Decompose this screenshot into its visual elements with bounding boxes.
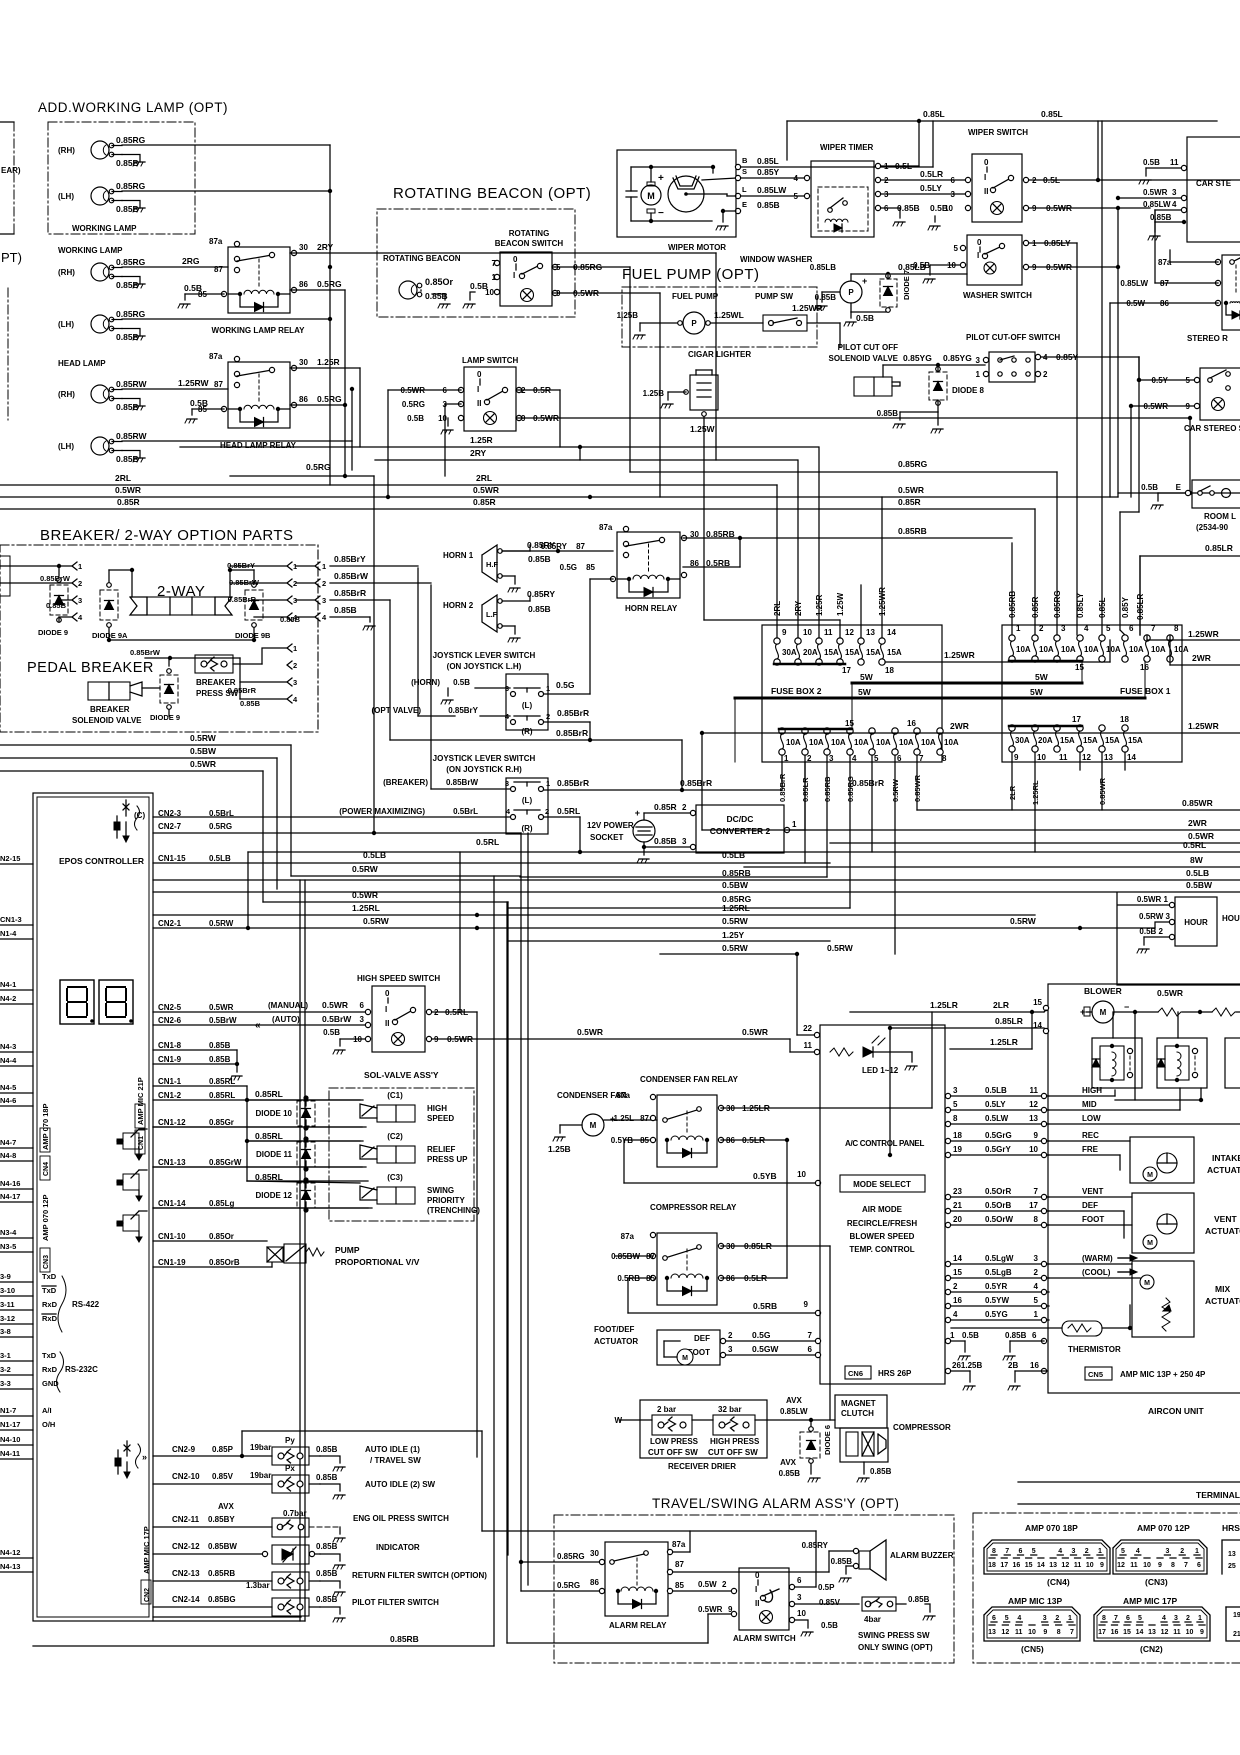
svg-text:N4-10: N4-10 bbox=[0, 1435, 20, 1444]
svg-text:2: 2 bbox=[545, 807, 549, 816]
svg-text:6: 6 bbox=[1129, 624, 1134, 633]
svg-text:0.5RW: 0.5RW bbox=[352, 864, 379, 874]
svg-text:0.5RW: 0.5RW bbox=[891, 778, 900, 802]
svg-text:3: 3 bbox=[951, 190, 956, 199]
svg-text:3-12: 3-12 bbox=[0, 1314, 15, 1323]
svg-text:3: 3 bbox=[1174, 1615, 1178, 1622]
svg-text:REC: REC bbox=[1082, 1131, 1099, 1140]
svg-text:15: 15 bbox=[845, 719, 854, 728]
svg-text:0.85BY: 0.85BY bbox=[208, 1515, 235, 1524]
svg-text:3: 3 bbox=[1172, 188, 1177, 197]
svg-text:2: 2 bbox=[1043, 370, 1048, 379]
svg-text:0.85RG: 0.85RG bbox=[1053, 590, 1062, 618]
svg-text:RELIEF: RELIEF bbox=[427, 1145, 456, 1154]
svg-text:VENT: VENT bbox=[1082, 1187, 1103, 1196]
svg-text:10: 10 bbox=[1029, 1145, 1038, 1154]
svg-text:13: 13 bbox=[1228, 1551, 1236, 1558]
svg-text:0.5WR: 0.5WR bbox=[115, 485, 141, 495]
svg-text:Px: Px bbox=[285, 1464, 295, 1473]
svg-text:TEMP. CONTROL: TEMP. CONTROL bbox=[849, 1245, 914, 1254]
svg-text:6: 6 bbox=[897, 754, 902, 763]
svg-text:87: 87 bbox=[214, 380, 223, 389]
svg-text:3: 3 bbox=[797, 1593, 802, 1602]
svg-text:TxD: TxD bbox=[42, 1272, 57, 1281]
svg-text:2: 2 bbox=[953, 1282, 958, 1291]
svg-text:FUSE BOX 2: FUSE BOX 2 bbox=[771, 686, 822, 696]
svg-text:(CN4): (CN4) bbox=[1047, 1577, 1070, 1587]
svg-text:19bar: 19bar bbox=[250, 1471, 271, 1480]
svg-text:7: 7 bbox=[808, 1331, 813, 1340]
svg-text:INDICATOR: INDICATOR bbox=[376, 1543, 420, 1552]
svg-text:SWING PRESS SW: SWING PRESS SW bbox=[858, 1631, 930, 1640]
svg-text:16: 16 bbox=[1111, 1629, 1119, 1636]
svg-text:17: 17 bbox=[1029, 1201, 1038, 1210]
svg-text:7: 7 bbox=[1114, 1615, 1118, 1622]
svg-text:30: 30 bbox=[299, 358, 308, 367]
svg-text:L: L bbox=[742, 185, 747, 194]
svg-text:(LH): (LH) bbox=[58, 442, 74, 451]
svg-text:CN6: CN6 bbox=[848, 1369, 863, 1378]
svg-text:N4-2: N4-2 bbox=[0, 994, 16, 1003]
svg-text:DEF: DEF bbox=[1082, 1201, 1098, 1210]
svg-text:11: 11 bbox=[824, 628, 833, 637]
svg-text:N4-13: N4-13 bbox=[0, 1562, 20, 1571]
svg-text:0.85WR: 0.85WR bbox=[1182, 798, 1213, 808]
svg-text:30: 30 bbox=[590, 1549, 599, 1558]
svg-text:N1-7: N1-7 bbox=[0, 1406, 16, 1415]
svg-text:HOU: HOU bbox=[1222, 914, 1240, 923]
svg-text:0.85BrW: 0.85BrW bbox=[130, 648, 161, 657]
svg-text:0.85B: 0.85B bbox=[209, 1055, 231, 1064]
svg-text:(RH): (RH) bbox=[58, 268, 75, 277]
svg-text:0.85RB: 0.85RB bbox=[208, 1569, 235, 1578]
svg-text:0.5B: 0.5B bbox=[470, 281, 488, 291]
svg-text:0.85BrY: 0.85BrY bbox=[448, 706, 478, 715]
svg-text:ROTATING: ROTATING bbox=[509, 229, 550, 238]
svg-text:2RL: 2RL bbox=[773, 601, 782, 616]
svg-text:0.85LR: 0.85LR bbox=[1205, 543, 1233, 553]
svg-text:N4-6: N4-6 bbox=[0, 1096, 16, 1105]
svg-text:0.5LgB: 0.5LgB bbox=[985, 1268, 1012, 1277]
svg-text:CIGAR LIGHTER: CIGAR LIGHTER bbox=[688, 350, 751, 359]
svg-text:19bar: 19bar bbox=[250, 1443, 271, 1452]
svg-text:AMP MIC 13P + 250 4P: AMP MIC 13P + 250 4P bbox=[1120, 1370, 1206, 1379]
svg-text:10A: 10A bbox=[809, 738, 824, 747]
svg-text:N4-12: N4-12 bbox=[0, 1548, 20, 1557]
svg-text:0.5BW: 0.5BW bbox=[722, 880, 749, 890]
svg-text:LOW: LOW bbox=[1082, 1114, 1101, 1123]
svg-text:M: M bbox=[1144, 1280, 1150, 1287]
svg-text:1: 1 bbox=[1098, 1548, 1102, 1555]
svg-text:0: 0 bbox=[513, 255, 518, 264]
svg-text:1.25WR: 1.25WR bbox=[944, 650, 975, 660]
svg-text:CN2-1: CN2-1 bbox=[158, 919, 182, 928]
svg-text:0.85L: 0.85L bbox=[1098, 597, 1107, 618]
svg-text:ONLY SWING (OPT): ONLY SWING (OPT) bbox=[858, 1643, 933, 1652]
svg-text:CONVERTER 2: CONVERTER 2 bbox=[710, 826, 771, 836]
svg-text:4: 4 bbox=[506, 807, 511, 816]
svg-text:FRE: FRE bbox=[1082, 1145, 1099, 1154]
svg-text:14: 14 bbox=[1033, 1021, 1042, 1030]
svg-text:12: 12 bbox=[1029, 1100, 1038, 1109]
svg-text:O/H: O/H bbox=[42, 1420, 55, 1429]
svg-text:0.85Or: 0.85Or bbox=[209, 1232, 234, 1241]
svg-text:0.85B: 0.85B bbox=[757, 200, 780, 210]
svg-text:10: 10 bbox=[1186, 1629, 1194, 1636]
svg-text:6: 6 bbox=[797, 1576, 802, 1585]
svg-text:N4-7: N4-7 bbox=[0, 1138, 16, 1147]
svg-text:0.85B: 0.85B bbox=[870, 1467, 892, 1476]
svg-text:I: I bbox=[385, 1005, 387, 1014]
svg-text:10: 10 bbox=[1143, 1562, 1151, 1569]
svg-text:0.85RB: 0.85RB bbox=[823, 776, 832, 802]
svg-text:0.5B: 0.5B bbox=[1141, 483, 1158, 492]
svg-text:10A: 10A bbox=[1151, 645, 1166, 654]
svg-text:0.85RL: 0.85RL bbox=[209, 1091, 235, 1100]
svg-text:0.5RG: 0.5RG bbox=[317, 279, 342, 289]
svg-text:FOOT/DEF: FOOT/DEF bbox=[594, 1325, 635, 1334]
svg-text:10A: 10A bbox=[921, 738, 936, 747]
svg-text:0.85B: 0.85B bbox=[316, 1595, 338, 1604]
svg-text:HORN 2: HORN 2 bbox=[443, 601, 474, 610]
svg-text:(C3): (C3) bbox=[387, 1173, 403, 1182]
svg-text:17: 17 bbox=[1072, 715, 1081, 724]
svg-text:RxD: RxD bbox=[42, 1300, 58, 1309]
svg-text:2WR: 2WR bbox=[1192, 653, 1211, 663]
svg-text:11: 11 bbox=[1059, 753, 1068, 762]
svg-text:86: 86 bbox=[299, 395, 308, 404]
svg-text:BLOWER SPEED: BLOWER SPEED bbox=[850, 1232, 915, 1241]
svg-text:10A: 10A bbox=[786, 738, 801, 747]
svg-text:(L): (L) bbox=[522, 796, 533, 805]
svg-text:0.5WR: 0.5WR bbox=[209, 1003, 234, 1012]
svg-text:N4-16: N4-16 bbox=[0, 1179, 20, 1188]
svg-text:4bar: 4bar bbox=[864, 1615, 881, 1624]
svg-text:(CN2): (CN2) bbox=[1140, 1644, 1163, 1654]
svg-text:0.85WR: 0.85WR bbox=[913, 774, 922, 802]
svg-text:(LH): (LH) bbox=[58, 320, 74, 329]
svg-text:RxD: RxD bbox=[42, 1314, 58, 1323]
svg-text:(L): (L) bbox=[522, 701, 533, 710]
svg-text:5: 5 bbox=[1032, 1548, 1036, 1555]
svg-text:1: 1 bbox=[1034, 1310, 1039, 1319]
svg-text:7: 7 bbox=[1184, 1562, 1188, 1569]
svg-text:0.5LgW: 0.5LgW bbox=[985, 1254, 1014, 1263]
svg-text:0.85RY: 0.85RY bbox=[541, 542, 568, 551]
svg-text:(ON JOYSTICK R.H): (ON JOYSTICK R.H) bbox=[446, 765, 522, 774]
svg-text:4: 4 bbox=[293, 695, 298, 704]
svg-text:TxD: TxD bbox=[42, 1351, 57, 1360]
svg-text:AVX: AVX bbox=[786, 1396, 803, 1405]
svg-text:0: 0 bbox=[385, 989, 390, 998]
svg-text:0.5RL: 0.5RL bbox=[557, 806, 580, 816]
svg-text:WIPER SWITCH: WIPER SWITCH bbox=[968, 128, 1028, 137]
svg-text:10: 10 bbox=[797, 1170, 806, 1179]
svg-text:0.85B: 0.85B bbox=[116, 454, 139, 464]
svg-text:0.5B: 0.5B bbox=[856, 313, 874, 323]
svg-text:10A: 10A bbox=[1016, 645, 1031, 654]
svg-text:AMP MIC 17P: AMP MIC 17P bbox=[1123, 1596, 1177, 1606]
svg-text:8: 8 bbox=[1171, 1562, 1175, 1569]
svg-text:0.5RW: 0.5RW bbox=[209, 919, 234, 928]
svg-text:SOLENOID VALVE: SOLENOID VALVE bbox=[72, 716, 142, 725]
svg-text:CN1-8: CN1-8 bbox=[158, 1041, 182, 1050]
svg-text:0.5RW: 0.5RW bbox=[363, 916, 390, 926]
svg-text:11: 11 bbox=[1170, 158, 1179, 167]
svg-text:0.85RW: 0.85RW bbox=[116, 379, 148, 389]
svg-text:2RG: 2RG bbox=[182, 256, 200, 266]
svg-text:2LR: 2LR bbox=[1008, 785, 1017, 800]
svg-text:1.25L: 1.25L bbox=[614, 1114, 635, 1123]
svg-text:HRS: HRS bbox=[1222, 1523, 1240, 1533]
svg-text:10A: 10A bbox=[944, 738, 959, 747]
svg-text:0.85BrY: 0.85BrY bbox=[334, 554, 366, 564]
svg-text:8W: 8W bbox=[1190, 855, 1204, 865]
svg-text:10: 10 bbox=[1037, 753, 1046, 762]
svg-text:0.5BrW: 0.5BrW bbox=[209, 1016, 237, 1025]
svg-text:2: 2 bbox=[728, 1331, 733, 1340]
svg-text:CN1-9: CN1-9 bbox=[158, 1055, 182, 1064]
svg-text:0.85Lg: 0.85Lg bbox=[209, 1199, 234, 1208]
svg-text:0.5B 2: 0.5B 2 bbox=[1139, 927, 1163, 936]
svg-text:0.5RG: 0.5RG bbox=[402, 400, 425, 409]
svg-text:DIODE 9: DIODE 9 bbox=[150, 713, 180, 722]
svg-text:0.5LY: 0.5LY bbox=[985, 1100, 1006, 1109]
svg-text:(BREAKER): (BREAKER) bbox=[383, 778, 428, 787]
svg-text:11: 11 bbox=[1173, 1629, 1181, 1636]
svg-text:15A: 15A bbox=[1128, 736, 1143, 745]
svg-text:0.85RL: 0.85RL bbox=[209, 1077, 235, 1086]
svg-text:PROPORTIONAL V/V: PROPORTIONAL V/V bbox=[335, 1257, 420, 1267]
svg-text:5: 5 bbox=[1034, 1296, 1039, 1305]
svg-text:30A: 30A bbox=[782, 648, 797, 657]
svg-text:3-1: 3-1 bbox=[0, 1351, 11, 1360]
svg-text:TxD: TxD bbox=[42, 1286, 57, 1295]
svg-text:II: II bbox=[984, 187, 988, 196]
svg-text:6: 6 bbox=[808, 1345, 813, 1354]
svg-text:PILOT FILTER SWITCH: PILOT FILTER SWITCH bbox=[352, 1598, 439, 1607]
svg-text:0.85RG: 0.85RG bbox=[846, 776, 855, 802]
svg-text:SWING: SWING bbox=[427, 1186, 454, 1195]
svg-text:JOYSTICK LEVER SWITCH: JOYSTICK LEVER SWITCH bbox=[433, 754, 536, 763]
svg-text:6: 6 bbox=[360, 1001, 365, 1010]
svg-text:CN1-14: CN1-14 bbox=[158, 1199, 186, 1208]
svg-text:EPOS CONTROLLER: EPOS CONTROLLER bbox=[59, 856, 144, 866]
svg-text:0.85B: 0.85B bbox=[654, 836, 677, 846]
svg-text:0.5YW: 0.5YW bbox=[985, 1296, 1009, 1305]
svg-text:7: 7 bbox=[1005, 1548, 1009, 1555]
svg-text:(RH): (RH) bbox=[58, 146, 75, 155]
svg-text:E: E bbox=[742, 200, 747, 209]
svg-text:10A: 10A bbox=[1084, 645, 1099, 654]
svg-text:0.5GrG: 0.5GrG bbox=[985, 1131, 1012, 1140]
svg-text:5W: 5W bbox=[860, 672, 874, 682]
svg-text:0.85L: 0.85L bbox=[923, 109, 945, 119]
svg-text:PRIORITY: PRIORITY bbox=[427, 1196, 465, 1205]
svg-text:RS-232C: RS-232C bbox=[65, 1365, 98, 1374]
svg-text:0.85LR: 0.85LR bbox=[995, 1016, 1023, 1026]
svg-text:DIODE 6: DIODE 6 bbox=[823, 1425, 832, 1455]
svg-text:0.5YR: 0.5YR bbox=[985, 1282, 1007, 1291]
svg-text:5: 5 bbox=[953, 1100, 958, 1109]
svg-text:(CN3): (CN3) bbox=[1145, 1577, 1168, 1587]
svg-text:0.85BrR: 0.85BrR bbox=[334, 588, 366, 598]
svg-text:0.5WR: 0.5WR bbox=[1143, 188, 1168, 197]
svg-text:0.85V: 0.85V bbox=[212, 1472, 234, 1481]
svg-text:RECEIVER DRIER: RECEIVER DRIER bbox=[668, 1462, 736, 1471]
svg-text:7: 7 bbox=[1151, 624, 1156, 633]
svg-text:CN2-12: CN2-12 bbox=[172, 1542, 200, 1551]
svg-text:N4-8: N4-8 bbox=[0, 1151, 16, 1160]
svg-text:CN2-13: CN2-13 bbox=[172, 1569, 200, 1578]
svg-text:4: 4 bbox=[794, 174, 799, 183]
svg-text:87: 87 bbox=[214, 265, 223, 274]
svg-text:9: 9 bbox=[804, 1300, 809, 1309]
svg-text:0.85B: 0.85B bbox=[908, 1595, 930, 1604]
svg-text:87: 87 bbox=[640, 1114, 649, 1123]
svg-text:0.5LY: 0.5LY bbox=[920, 183, 942, 193]
svg-text:1: 1 bbox=[792, 820, 797, 829]
svg-text:0.85WR: 0.85WR bbox=[1098, 777, 1107, 805]
svg-text:(MANUAL): (MANUAL) bbox=[268, 1001, 308, 1010]
svg-text:13: 13 bbox=[1049, 1562, 1057, 1569]
svg-text:3-2: 3-2 bbox=[0, 1365, 11, 1374]
svg-text:16: 16 bbox=[1030, 1361, 1039, 1370]
svg-text:M: M bbox=[682, 1355, 688, 1362]
svg-text:(C2): (C2) bbox=[387, 1132, 403, 1141]
svg-text:(2534-90: (2534-90 bbox=[1196, 523, 1229, 532]
svg-text:15: 15 bbox=[1025, 1562, 1033, 1569]
svg-text:0.85Y: 0.85Y bbox=[1121, 596, 1130, 618]
svg-text:2: 2 bbox=[682, 803, 687, 812]
svg-text:AUTO IDLE (2) SW: AUTO IDLE (2) SW bbox=[365, 1480, 436, 1489]
svg-text:N4-5: N4-5 bbox=[0, 1083, 16, 1092]
svg-text:0.5RB: 0.5RB bbox=[753, 1301, 777, 1311]
svg-text:0.5BW: 0.5BW bbox=[1186, 880, 1213, 890]
svg-text:1.25R: 1.25R bbox=[815, 594, 824, 616]
svg-text:9: 9 bbox=[1043, 1629, 1047, 1636]
svg-text:4: 4 bbox=[953, 1310, 958, 1319]
svg-text:0.85RG: 0.85RG bbox=[116, 257, 146, 267]
svg-text:A/C CONTROL PANEL: A/C CONTROL PANEL bbox=[845, 1139, 924, 1148]
svg-text:2: 2 bbox=[322, 579, 326, 588]
svg-text:0.85BrR: 0.85BrR bbox=[778, 773, 787, 802]
svg-text:15A: 15A bbox=[887, 648, 902, 657]
svg-text:7: 7 bbox=[1070, 1629, 1074, 1636]
svg-text:Py: Py bbox=[285, 1436, 295, 1445]
svg-text:5: 5 bbox=[1121, 1548, 1125, 1555]
svg-text:CN2-14: CN2-14 bbox=[172, 1595, 200, 1604]
svg-text:4: 4 bbox=[322, 613, 327, 622]
svg-text:4: 4 bbox=[1084, 624, 1089, 633]
svg-text:6: 6 bbox=[951, 176, 956, 185]
svg-text:14: 14 bbox=[1037, 1562, 1045, 1569]
svg-text:0.85BrR: 0.85BrR bbox=[852, 778, 884, 788]
svg-text:0.5WR: 0.5WR bbox=[352, 890, 378, 900]
svg-text:30: 30 bbox=[299, 243, 308, 252]
svg-text:0.85LW: 0.85LW bbox=[780, 1407, 808, 1416]
svg-text:1: 1 bbox=[293, 644, 297, 653]
svg-text:0.85BW: 0.85BW bbox=[208, 1542, 237, 1551]
svg-text:9: 9 bbox=[1014, 753, 1019, 762]
svg-text:2: 2 bbox=[722, 1580, 727, 1589]
svg-text:18: 18 bbox=[885, 666, 894, 675]
svg-text:0: 0 bbox=[755, 1571, 760, 1580]
svg-text:DIODE 8: DIODE 8 bbox=[952, 386, 985, 395]
svg-text:AMP 070 12P: AMP 070 12P bbox=[41, 1194, 50, 1241]
svg-text:10A: 10A bbox=[854, 738, 869, 747]
svg-text:ALARM BUZZER: ALARM BUZZER bbox=[890, 1551, 954, 1560]
svg-text:18: 18 bbox=[988, 1562, 996, 1569]
svg-text:0.85B: 0.85B bbox=[316, 1445, 338, 1454]
svg-text:0.85B: 0.85B bbox=[116, 402, 139, 412]
svg-text:0.85B: 0.85B bbox=[116, 204, 139, 214]
svg-text:BLOWER: BLOWER bbox=[1084, 986, 1122, 996]
svg-text:M: M bbox=[1147, 1240, 1153, 1247]
svg-text:14: 14 bbox=[887, 628, 896, 637]
svg-text:CN1-19: CN1-19 bbox=[158, 1258, 186, 1267]
svg-text:3: 3 bbox=[505, 779, 509, 788]
svg-text:0.85B: 0.85B bbox=[1005, 1331, 1027, 1340]
svg-text:11: 11 bbox=[804, 1041, 813, 1050]
svg-text:L.F: L.F bbox=[486, 610, 498, 619]
svg-text:10: 10 bbox=[803, 628, 812, 637]
svg-text:ROTATING BEACON (OPT): ROTATING BEACON (OPT) bbox=[393, 185, 591, 202]
svg-text:0.85RG: 0.85RG bbox=[116, 309, 146, 319]
svg-text:2LR: 2LR bbox=[993, 1000, 1009, 1010]
svg-text:9: 9 bbox=[1158, 1562, 1162, 1569]
svg-text:PEDAL BREAKER: PEDAL BREAKER bbox=[27, 660, 154, 676]
svg-text:16: 16 bbox=[907, 719, 916, 728]
svg-text:0.5B: 0.5B bbox=[962, 1331, 979, 1340]
svg-text:TRAVEL/SWING ALARM ASS'Y (OPT): TRAVEL/SWING ALARM ASS'Y (OPT) bbox=[652, 1496, 899, 1511]
svg-text:RxD: RxD bbox=[42, 1365, 58, 1374]
svg-text:32 bar: 32 bar bbox=[718, 1405, 742, 1414]
svg-text:2RL: 2RL bbox=[476, 473, 492, 483]
svg-text:11: 11 bbox=[1015, 1629, 1023, 1636]
svg-text:2: 2 bbox=[1186, 1615, 1190, 1622]
svg-text:12: 12 bbox=[1117, 1562, 1125, 1569]
svg-text:AMP 070 18P: AMP 070 18P bbox=[41, 1103, 50, 1150]
svg-text:1.25LR: 1.25LR bbox=[930, 1000, 958, 1010]
svg-text:0: 0 bbox=[477, 370, 482, 379]
svg-text:0.5RW: 0.5RW bbox=[722, 943, 749, 953]
svg-text:7: 7 bbox=[1034, 1187, 1039, 1196]
svg-text:0.85BrW: 0.85BrW bbox=[446, 778, 478, 787]
svg-text:I: I bbox=[977, 251, 979, 260]
svg-text:0.5RW: 0.5RW bbox=[1010, 916, 1037, 926]
svg-text:HRS 26P: HRS 26P bbox=[878, 1369, 912, 1378]
svg-text:M: M bbox=[590, 1121, 597, 1130]
svg-text:12: 12 bbox=[1082, 753, 1091, 762]
svg-text:0.85R: 0.85R bbox=[654, 802, 677, 812]
svg-text:/ TRAVEL SW: / TRAVEL SW bbox=[370, 1456, 421, 1465]
svg-text:0.5WR: 0.5WR bbox=[322, 1000, 348, 1010]
svg-text:BEACON SWITCH: BEACON SWITCH bbox=[495, 239, 564, 248]
svg-text:DIODE 9: DIODE 9 bbox=[38, 628, 68, 637]
svg-text:AMP MIC 17P: AMP MIC 17P bbox=[142, 1526, 151, 1574]
svg-text:HEAD LAMP RELAY: HEAD LAMP RELAY bbox=[220, 441, 297, 450]
svg-text:2RL: 2RL bbox=[115, 473, 131, 483]
svg-text:8: 8 bbox=[992, 1548, 996, 1555]
svg-text:19: 19 bbox=[1233, 1612, 1240, 1619]
svg-text:0.85B: 0.85B bbox=[209, 1041, 231, 1050]
svg-text:N4-4: N4-4 bbox=[0, 1056, 17, 1065]
svg-text:0.85B: 0.85B bbox=[316, 1569, 338, 1578]
svg-text:N1-17: N1-17 bbox=[0, 1420, 20, 1429]
svg-text:3: 3 bbox=[1034, 1254, 1039, 1263]
svg-text:0.5LW: 0.5LW bbox=[985, 1114, 1009, 1123]
